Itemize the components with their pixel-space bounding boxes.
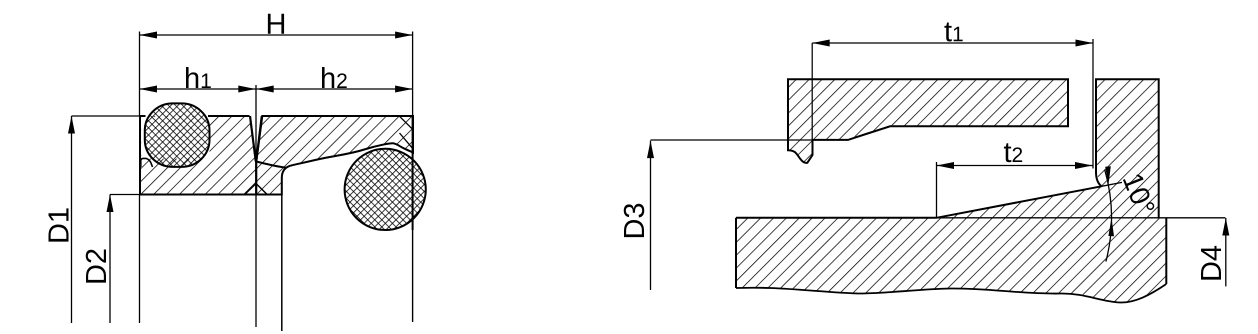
dimension t2 line [937, 165, 1093, 167]
shaft surface line thick [736, 217, 937, 219]
bore right edge [412, 116, 414, 230]
lower block left edge [735, 218, 737, 288]
lower block wavy break bottom [736, 284, 1166, 303]
upper block (cylinder head) [788, 79, 1068, 163]
chevron joint right [256, 184, 267, 195]
O-ring pocket white-out [141, 117, 209, 159]
svg-text:D3: D3 [619, 202, 651, 239]
arrow t1 right [1076, 40, 1094, 47]
dimension D4 line [1225, 218, 1227, 286]
arrow D1 up [68, 116, 75, 134]
arrow t2 right [1075, 162, 1093, 169]
arrow H right [395, 32, 413, 39]
taper edge 10 deg [937, 186, 1102, 218]
datum line thin to D4 [937, 217, 1226, 219]
D3 extension line [651, 139, 812, 141]
arrow h1 right [238, 86, 256, 93]
extension line right x=412.6 top [412, 32, 414, 117]
arrow H left [140, 32, 158, 39]
arrow h2 right [395, 86, 413, 93]
seal left part left edge [139, 116, 141, 195]
arc arrow at datum [1108, 218, 1114, 236]
extension line left x=139.5 bottom [139, 195, 141, 324]
O-ring left (cross-hatched squircle) [145, 103, 210, 166]
lower block right edge [1165, 218, 1167, 284]
arrow h2 left [256, 86, 274, 93]
svg-text:h2: h2 [320, 63, 348, 95]
seal bottom edge [139, 194, 281, 196]
arrow D3 up [647, 141, 654, 159]
svg-text:t2: t2 [1003, 137, 1023, 169]
svg-text:h1: h1 [184, 63, 212, 95]
D2 extension line [110, 194, 141, 196]
arrow t2 left [937, 162, 955, 169]
seal left part top edge segment A [139, 115, 146, 117]
dimension t1 line [812, 42, 1093, 44]
arc arrow at taper [1105, 166, 1111, 185]
O-ring retaining lip [141, 158, 153, 167]
extension line left x=139.5 top [139, 32, 141, 117]
t1/t2 extension right x=1090.3 [1092, 39, 1094, 169]
dimension H line [140, 34, 413, 36]
svg-text:t1: t1 [944, 16, 964, 48]
seal right part body hatching [256, 116, 413, 195]
taper thin extension ray [1102, 182, 1123, 186]
10 degree dimension arc [1105, 170, 1112, 262]
corner diagonal 1 [399, 116, 412, 129]
seal left part top edge segment B [208, 115, 250, 117]
corner diagonal 2 [400, 133, 413, 148]
dimension D1 line [71, 116, 73, 323]
V notch left line [250, 116, 256, 162]
seal left part body hatching [140, 116, 256, 195]
D1 extension line [72, 115, 141, 117]
t1 extension left x=811.8 [811, 43, 813, 153]
V notch right line [256, 116, 262, 162]
O-ring right (cross-hatched circle) [345, 149, 426, 230]
dimension h1 line [140, 88, 256, 90]
arrow h1 left [140, 86, 158, 93]
foot edge extension x=281.8 [281, 195, 283, 332]
chevron joint left [245, 184, 256, 195]
t2 extension left x=936.5 [936, 162, 938, 218]
svg-text:D1: D1 [43, 207, 75, 244]
dimension D3 line [650, 141, 652, 290]
svg-text:D2: D2 [81, 248, 113, 285]
arrow D4 up [1222, 218, 1229, 236]
arrow D2 up [107, 195, 114, 213]
seal lip underside from notch [256, 162, 286, 168]
dimension D2 line [109, 195, 111, 324]
svg-text:D4: D4 [1196, 245, 1228, 282]
extension / joint line center x=256 [255, 85, 257, 162]
arrow t1 left [812, 40, 830, 47]
right block (shoulder) [937, 79, 1159, 218]
seal right part top edge [262, 115, 413, 117]
lower block (shaft) [736, 218, 1166, 303]
svg-text:H: H [266, 9, 287, 41]
dimension h2 line [256, 88, 412, 90]
